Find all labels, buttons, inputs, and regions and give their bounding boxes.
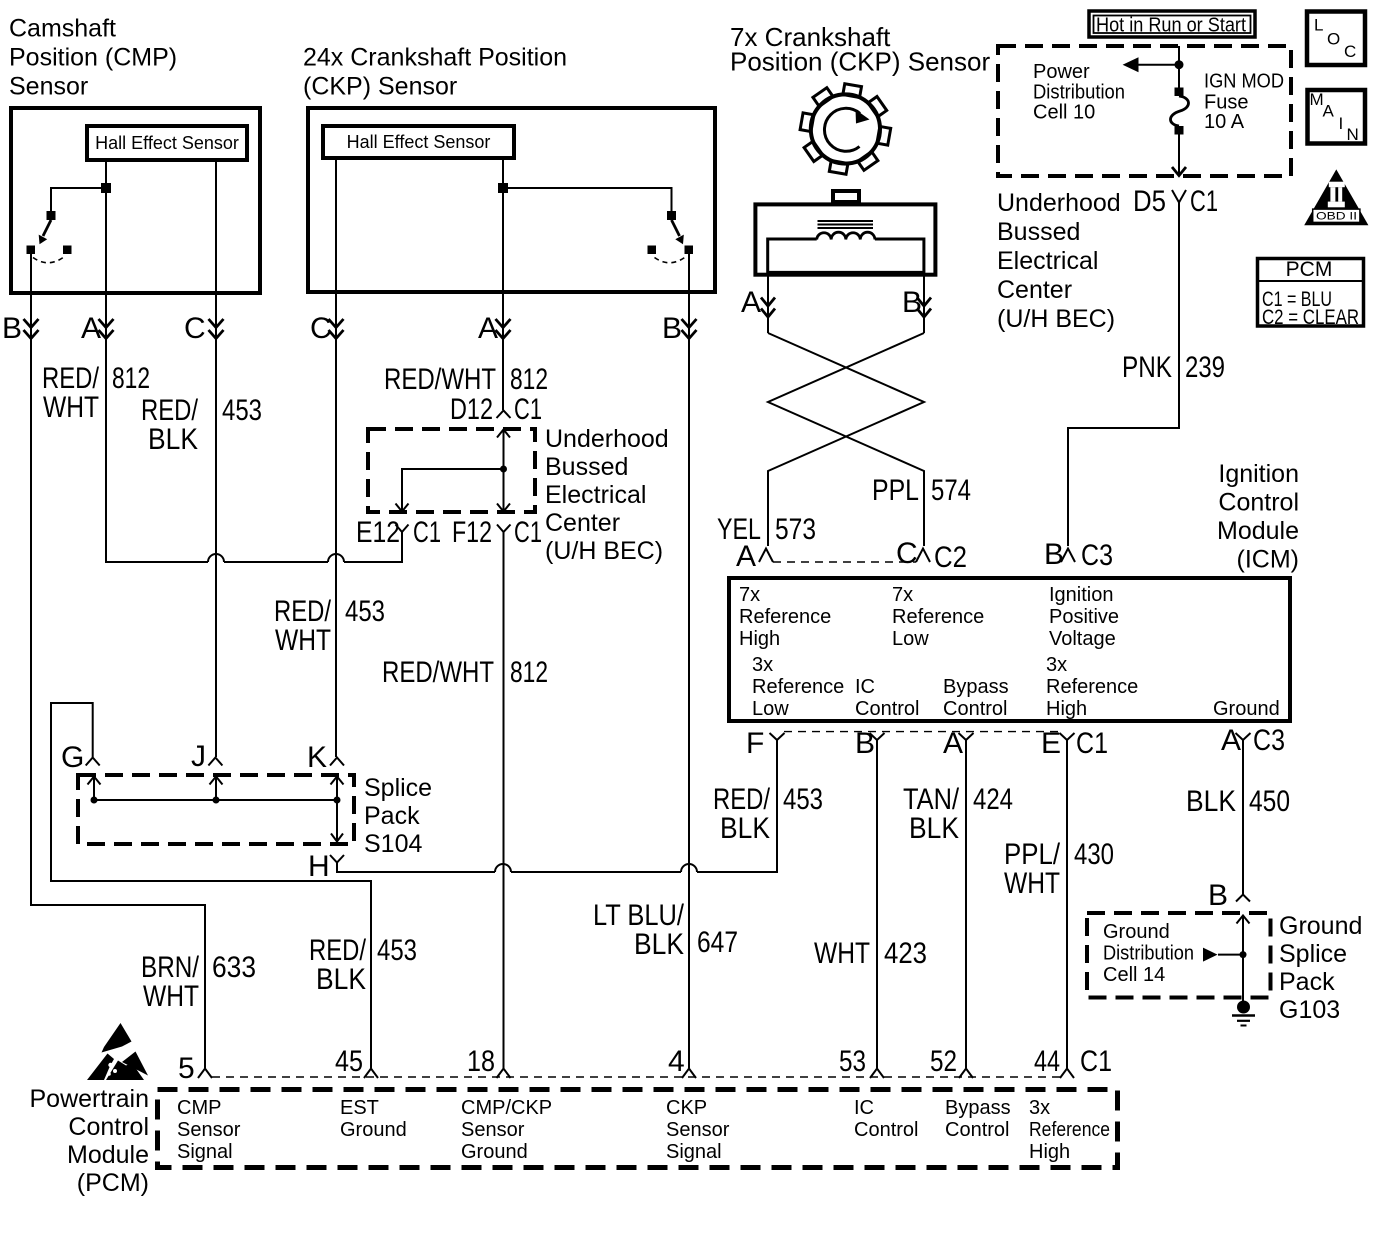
wire: fuse output down to U/H BEC edge: [1178, 135, 1180, 176]
svg-text:C1: C1: [514, 393, 542, 426]
svg-text:CMP/CKP: CMP/CKP: [461, 1097, 552, 1119]
svg-text:WHT: WHT: [43, 391, 99, 424]
connector pin 53 at PCM: [839, 1045, 884, 1078]
svg-text:Power: Power: [1033, 61, 1090, 83]
fuse IGN MOD 10A: [1171, 88, 1189, 135]
wire label RED/BLK 453 (PCM pin 45): [309, 934, 417, 996]
svg-text:BLK: BLK: [316, 963, 366, 996]
wire label PPL 574: [872, 474, 971, 507]
connector pin 45 at PCM: [335, 1045, 378, 1078]
svg-text:3x: 3x: [1029, 1097, 1050, 1119]
svg-text:BLK: BLK: [148, 423, 198, 456]
connector F at ICM bottom: [746, 727, 785, 760]
wire: branch from ground distribution: [1218, 954, 1243, 956]
label: Camshaft Position (CMP) Sensor title: [9, 15, 177, 101]
svg-text:Splice: Splice: [364, 774, 432, 802]
svg-text:52: 52: [930, 1045, 957, 1078]
wire: internal stem to F12: [503, 469, 505, 510]
junction dot J: [213, 797, 220, 804]
label: CKP Sensor Signal (PCM): [666, 1097, 730, 1163]
svg-text:D5: D5: [1133, 185, 1166, 218]
svg-text:(ICM): (ICM): [1237, 546, 1299, 574]
wire: feed from Hot in Run into fuse: [1178, 46, 1180, 88]
svg-text:Cell 10: Cell 10: [1033, 102, 1095, 124]
svg-text:424: 424: [973, 783, 1013, 816]
label: Power Distribution Cell 10: [1033, 61, 1125, 124]
connector J at splice pack: [191, 740, 222, 773]
svg-text:3x: 3x: [1046, 654, 1067, 676]
svg-text:7x: 7x: [892, 584, 913, 606]
svg-text:5: 5: [178, 1052, 195, 1085]
svg-text:WHT: WHT: [1004, 867, 1060, 900]
wire label TAN/BLK 424: [903, 783, 1013, 845]
svg-text:WHT: WHT: [275, 624, 331, 657]
label: Bypass Control (PCM): [945, 1097, 1011, 1141]
svg-text:C1: C1: [514, 516, 542, 549]
svg-text:C: C: [896, 537, 918, 570]
connector F12 C1: [452, 516, 542, 549]
svg-text:CKP: CKP: [666, 1097, 707, 1119]
wire label RED/WHT 812 (CMP pin A): [42, 362, 150, 424]
svg-text:Bypass: Bypass: [943, 676, 1009, 698]
PCM connector legend box: [1258, 258, 1364, 329]
label: Ignition Control Module (ICM): [1217, 460, 1299, 574]
svg-text:C3: C3: [1253, 724, 1285, 757]
svg-text:C1: C1: [1190, 185, 1218, 218]
svg-text:High: High: [1029, 1141, 1070, 1163]
label: Ground Distribution Cell 14: [1103, 921, 1194, 986]
arrow out of splice pack to H: [331, 800, 343, 842]
label: Ground Splice Pack G103: [1279, 912, 1362, 1024]
connector pin 5 at PCM: [178, 1052, 212, 1085]
connector arrows CMP pin A: [99, 319, 114, 339]
svg-text:A: A: [741, 286, 761, 319]
Hot in Run or Start box: [1089, 11, 1255, 37]
svg-text:Control: Control: [854, 1119, 918, 1141]
svg-text:I: I: [1339, 114, 1344, 133]
wire label RED/WHT 812 (F12 output): [382, 656, 548, 689]
svg-text:C: C: [310, 312, 332, 345]
connector pin 18 at PCM: [467, 1045, 511, 1078]
connector arrows 24x pin A: [496, 319, 511, 339]
svg-text:Ground: Ground: [1103, 921, 1170, 943]
svg-text:Position (CKP) Sensor: Position (CKP) Sensor: [730, 47, 990, 77]
svg-text:(PCM): (PCM): [77, 1169, 149, 1197]
svg-text:3x: 3x: [752, 654, 773, 676]
arrow out of U/H BEC at F12: [497, 504, 510, 512]
LOC reference box: [1307, 12, 1365, 66]
svg-text:574: 574: [931, 474, 971, 507]
svg-text:Ground: Ground: [340, 1119, 407, 1141]
svg-text:C2 = CLEAR: C2 = CLEAR: [1262, 306, 1359, 329]
connector D5 C1: [1133, 185, 1218, 218]
junction dot inside U/H BEC: [500, 466, 507, 473]
connector arrows CMP pin B: [24, 319, 39, 339]
switch inside 24x CKP sensor: [498, 183, 693, 263]
svg-text:812: 812: [510, 656, 548, 689]
svg-text:44: 44: [1034, 1045, 1060, 1078]
connector D12 C1 at U/H BEC: [450, 393, 542, 426]
reluctor wheel (gear) of 7x CKP sensor: [800, 84, 891, 175]
svg-text:Underhood: Underhood: [545, 425, 669, 453]
svg-text:CMP: CMP: [177, 1097, 221, 1119]
OBD II symbol: [1304, 169, 1368, 225]
svg-text:C: C: [1344, 42, 1356, 61]
svg-text:G103: G103: [1279, 996, 1340, 1024]
wire label PPL/WHT 430: [1004, 838, 1114, 900]
svg-text:Ground: Ground: [1279, 912, 1362, 940]
arrow into splice pack at J: [210, 777, 223, 801]
svg-text:PCM: PCM: [1286, 258, 1333, 281]
wire: ICM pin A to PCM pin 52: [965, 740, 967, 1068]
connector C C2 at ICM top: [896, 537, 967, 574]
svg-text:Hall Effect Sensor: Hall Effect Sensor: [95, 133, 239, 153]
MAIN reference box: [1308, 90, 1366, 144]
label: IGN MOD Fuse 10 A: [1204, 71, 1284, 134]
Power Distribution Cell 10 dashed box: [998, 46, 1291, 176]
svg-text:(U/H BEC): (U/H BEC): [545, 537, 663, 565]
wire label RED/WHT 453 (24x pin C): [274, 595, 385, 657]
connector E12 C1: [356, 516, 441, 562]
connector E C1 at ICM bottom: [1041, 727, 1108, 760]
ESD sensitive symbol: [87, 1023, 148, 1080]
arrow into splice pack at K: [331, 777, 344, 801]
svg-text:RED/WHT: RED/WHT: [382, 656, 494, 689]
hall effect sensor box (CMP): [87, 126, 247, 160]
junction dot G: [91, 797, 98, 804]
wire: CMP pin A down to E12 feed line: [106, 160, 402, 562]
svg-text:633: 633: [212, 951, 256, 984]
svg-text:C1: C1: [413, 516, 441, 549]
svg-text:812: 812: [112, 362, 150, 395]
svg-text:Sensor: Sensor: [666, 1119, 730, 1141]
wire: branch to power distribution (left arrow): [1137, 64, 1179, 66]
label: 7x Reference Low (ICM): [892, 584, 984, 650]
connector arrows 24x pin B: [682, 319, 697, 339]
svg-text:18: 18: [467, 1045, 495, 1078]
svg-text:Control: Control: [855, 698, 919, 720]
label: Underhood Bussed Electrical Center (U/H BEC) middle: [545, 425, 669, 565]
svg-text:O: O: [1327, 30, 1340, 49]
wire: twisted pair line from 7x A to ICM pin A: [768, 333, 924, 546]
24x CKP sensor outline box: [308, 108, 715, 292]
label: CMP/CKP Sensor Ground (PCM): [461, 1097, 552, 1163]
svg-text:Control: Control: [943, 698, 1007, 720]
svg-text:C1: C1: [1080, 1045, 1112, 1078]
svg-text:PPL: PPL: [872, 474, 919, 507]
svg-text:RED/WHT: RED/WHT: [384, 363, 496, 396]
svg-text:A: A: [736, 540, 756, 573]
svg-text:J: J: [191, 740, 206, 773]
connector A C3 ground at ICM bottom: [1221, 724, 1285, 757]
svg-text:812: 812: [510, 363, 548, 396]
svg-text:Reference: Reference: [739, 606, 831, 628]
svg-text:C1: C1: [1076, 727, 1108, 760]
svg-text:IC: IC: [855, 676, 875, 698]
svg-text:BLK: BLK: [634, 928, 684, 961]
wire label RED/WHT 812 (24x pin A): [384, 363, 548, 396]
arrow out of U/H BEC at E12: [396, 504, 409, 512]
svg-text:24x Crankshaft Position: 24x Crankshaft Position: [303, 44, 567, 72]
label: IC Control (PCM): [854, 1097, 918, 1141]
wire: down to ground G103: [1242, 955, 1244, 1001]
svg-text:F: F: [746, 727, 764, 760]
svg-text:(U/H BEC): (U/H BEC): [997, 305, 1115, 333]
svg-text:B: B: [902, 286, 922, 319]
wire: 7x pin A stub: [767, 272, 769, 333]
hall effect sensor box (24x CKP): [323, 126, 514, 158]
svg-text:E12: E12: [356, 516, 400, 549]
connector pin 44 C1 at PCM: [1034, 1045, 1112, 1078]
arrow at U/H BEC box edge: [1172, 167, 1186, 176]
svg-text:647: 647: [697, 926, 738, 959]
svg-text:A: A: [1323, 102, 1335, 121]
wire: H to ICM pin F (3x Reference Low): [337, 740, 777, 873]
svg-text:Position (CMP): Position (CMP): [9, 44, 177, 72]
svg-text:Hot in Run or Start: Hot in Run or Start: [1096, 15, 1246, 37]
wire label PNK 239: [1122, 351, 1225, 384]
svg-text:Cell 14: Cell 14: [1103, 964, 1165, 986]
connector pin 52 at PCM: [930, 1045, 973, 1078]
arrow into splice pack at G: [88, 777, 101, 801]
svg-text:Underhood: Underhood: [997, 189, 1121, 217]
svg-text:B: B: [1044, 538, 1064, 571]
wire: PNK 239 from D5 to ICM B/C3: [1068, 203, 1179, 547]
ground symbol G103: [1232, 1001, 1255, 1026]
wire: ICM pin E to PCM pin 44: [1066, 740, 1068, 1068]
svg-text:H: H: [308, 850, 330, 883]
wire: F12 output down to PCM pin 18: [503, 532, 505, 1068]
svg-text:High: High: [739, 628, 780, 650]
svg-text:BLK: BLK: [909, 812, 959, 845]
svg-text:Control: Control: [1218, 489, 1299, 517]
svg-text:Low: Low: [892, 628, 929, 650]
arrow into U/H BEC at D12: [497, 430, 510, 470]
connector A at ICM top: [736, 540, 773, 573]
junction dot G103: [1240, 951, 1247, 958]
svg-text:A: A: [81, 312, 101, 345]
svg-text:B: B: [2, 312, 22, 345]
svg-text:Electrical: Electrical: [545, 481, 646, 509]
wire label LT BLU/BLK 647 (PCM pin 4): [593, 899, 738, 961]
svg-text:Ignition: Ignition: [1218, 460, 1299, 488]
svg-text:C: C: [184, 312, 206, 345]
svg-text:Reference: Reference: [752, 676, 844, 698]
svg-text:High: High: [1046, 698, 1087, 720]
connector H at splice pack: [308, 850, 344, 883]
connector arrows 7x pin A: [761, 298, 775, 318]
svg-text:45: 45: [335, 1045, 363, 1078]
svg-text:Distribution: Distribution: [1033, 82, 1125, 104]
svg-text:D12: D12: [450, 393, 493, 426]
connector arrows 7x pin B: [917, 298, 931, 318]
svg-text:PNK: PNK: [1122, 351, 1172, 384]
connector K at splice pack: [307, 741, 344, 774]
wire label RED/BLK 453 (ICM pin F): [713, 783, 823, 845]
svg-text:A: A: [1221, 724, 1241, 757]
dashed connector line ICM top: [773, 561, 916, 563]
svg-text:WHT: WHT: [814, 937, 870, 970]
label: 7x Reference High (ICM): [739, 584, 831, 650]
label: Ignition Positive Voltage (ICM): [1049, 584, 1119, 650]
CMP sensor outline box: [11, 108, 260, 293]
svg-text:Sensor: Sensor: [461, 1119, 525, 1141]
wire jump over F12 wire: [495, 864, 511, 872]
svg-text:G: G: [61, 741, 84, 774]
svg-text:A: A: [478, 312, 498, 345]
label: Splice Pack S104: [364, 774, 432, 858]
wire: G loop from splice pack to PCM pin 45: [51, 703, 371, 1068]
svg-text:Electrical: Electrical: [997, 247, 1098, 275]
wire: 24x pin B down to PCM pin 4: [688, 254, 690, 1068]
svg-text:Reference: Reference: [892, 606, 984, 628]
wire label WHT 423: [814, 937, 927, 970]
connector arrows CMP pin C: [209, 319, 224, 339]
label: IC Control (ICM): [855, 676, 919, 720]
svg-text:Distribution: Distribution: [1103, 943, 1194, 965]
Ground Splice Pack G103 dashed box: [1087, 913, 1271, 998]
svg-text:Module: Module: [1217, 517, 1299, 545]
svg-text:N: N: [1347, 125, 1359, 144]
svg-text:Center: Center: [545, 509, 620, 537]
wire label BRN/WHT 633 (PCM pin 5): [141, 951, 256, 1013]
svg-text:Control: Control: [68, 1113, 149, 1141]
wire label RED/BLK 453 (CMP pin C): [141, 394, 262, 456]
U/H BEC dashed box (D12/E12/F12): [368, 429, 535, 512]
arrow into ground splice pack: [1237, 916, 1250, 955]
wire: 7x pin B stub: [923, 272, 925, 333]
svg-text:573: 573: [775, 513, 816, 546]
wire jump over 24x C wire: [328, 554, 344, 562]
label: 7x Crankshaft Position (CKP) Sensor title: [730, 22, 990, 77]
svg-text:Reference: Reference: [1029, 1119, 1110, 1141]
svg-text:Signal: Signal: [177, 1141, 233, 1163]
switch inside CMP sensor: [27, 183, 112, 263]
svg-text:OBD II: OBD II: [1316, 211, 1357, 223]
connector pin 4 at PCM: [668, 1045, 696, 1078]
svg-text:453: 453: [345, 595, 385, 628]
label: Powertrain Control Module (PCM): [30, 1085, 150, 1197]
wire: CMP pin B down, right, down to PCM pin 5: [31, 254, 205, 1068]
connector A at ICM bottom: [943, 727, 974, 760]
svg-text:Pack: Pack: [1279, 968, 1335, 996]
svg-text:F12: F12: [452, 516, 492, 549]
label: 24x Crankshaft Position (CKP) Sensor title: [303, 44, 567, 101]
junction dot at power feed: [1175, 60, 1184, 69]
svg-text:10 A: 10 A: [1204, 111, 1245, 133]
svg-text:453: 453: [222, 394, 262, 427]
svg-text:Reference: Reference: [1046, 676, 1138, 698]
7x CKP sensor body box with pickup coil: [755, 191, 935, 275]
label: 3x Reference High (PCM): [1029, 1097, 1110, 1163]
svg-text:EST: EST: [340, 1097, 379, 1119]
wire: internal branch to E12: [402, 469, 504, 510]
svg-text:Bypass: Bypass: [945, 1097, 1011, 1119]
svg-text:Powertrain: Powertrain: [30, 1085, 150, 1113]
svg-text:239: 239: [1185, 351, 1225, 384]
svg-text:K: K: [307, 741, 327, 774]
svg-text:450: 450: [1249, 785, 1290, 818]
svg-text:Low: Low: [752, 698, 789, 720]
svg-text:Bussed: Bussed: [545, 453, 628, 481]
connector B at ICM bottom: [855, 727, 885, 760]
connector arrows 24x pin C: [329, 319, 344, 339]
wire: 24x pin A down to D12: [502, 158, 504, 410]
svg-text:Sensor: Sensor: [9, 73, 88, 101]
svg-text:C2: C2: [934, 541, 967, 574]
label: CMP Sensor Signal (PCM): [177, 1097, 241, 1163]
dashed connector line PCM top: [212, 1076, 1060, 1078]
svg-text:Ground: Ground: [1213, 698, 1280, 720]
svg-text:423: 423: [884, 937, 927, 970]
svg-text:Hall Effect Sensor: Hall Effect Sensor: [347, 132, 491, 152]
wire label BLK 450: [1186, 785, 1290, 818]
svg-text:Center: Center: [997, 276, 1072, 304]
connector G at splice pack: [61, 741, 100, 774]
svg-text:Voltage: Voltage: [1049, 628, 1116, 650]
svg-text:WHT: WHT: [143, 980, 199, 1013]
Ignition Control Module box: [729, 578, 1290, 721]
svg-text:Positive: Positive: [1049, 606, 1119, 628]
svg-text:S104: S104: [364, 830, 422, 858]
wire: twisted pair line from 7x B to ICM pin C: [768, 333, 924, 546]
svg-text:Ignition: Ignition: [1049, 584, 1114, 606]
connector B C3 at ICM top: [1044, 538, 1113, 572]
svg-text:53: 53: [839, 1045, 866, 1078]
svg-text:4: 4: [668, 1045, 685, 1078]
label: Underhood Bussed Electrical Center (U/H BEC) right: [997, 189, 1121, 333]
svg-text:Ground: Ground: [461, 1141, 528, 1163]
svg-text:Splice: Splice: [1279, 940, 1347, 968]
svg-text:Sensor: Sensor: [177, 1119, 241, 1141]
svg-text:Bussed: Bussed: [997, 218, 1080, 246]
svg-text:B: B: [1208, 879, 1228, 912]
splice bus bar S104: [94, 799, 337, 801]
label: EST Ground (PCM): [340, 1097, 407, 1141]
svg-text:IC: IC: [854, 1097, 874, 1119]
label: 3x Reference High (ICM): [1046, 654, 1138, 720]
svg-text:BLK: BLK: [1186, 785, 1236, 818]
svg-text:C3: C3: [1081, 539, 1113, 572]
wire: CMP pin C down to splice pack J: [215, 160, 217, 757]
svg-text:453: 453: [377, 934, 417, 967]
dashed connector line ICM bottom: [784, 731, 1060, 733]
junction dot K: [334, 797, 341, 804]
svg-text:BLK: BLK: [720, 812, 770, 845]
wire: ICM pin B to PCM pin 53: [876, 740, 878, 1068]
Splice Pack S104 dashed box: [78, 775, 354, 844]
label: 3x Reference Low (ICM): [752, 654, 844, 720]
svg-text:453: 453: [783, 783, 823, 816]
svg-text:Signal: Signal: [666, 1141, 722, 1163]
wire jump over 24x B wire: [681, 864, 697, 872]
wire label YEL 573: [717, 513, 816, 546]
svg-text:Control: Control: [945, 1119, 1009, 1141]
connector B at ground splice pack: [1208, 879, 1250, 912]
svg-text:Camshaft: Camshaft: [9, 15, 116, 43]
svg-text:IGN MOD: IGN MOD: [1204, 71, 1284, 93]
svg-text:B: B: [662, 312, 682, 345]
svg-text:Module: Module: [67, 1141, 149, 1169]
wire: 24x pin C down to splice pack K: [335, 158, 337, 757]
wire: ICM ground pin A to G103: [1242, 740, 1244, 894]
svg-text:430: 430: [1074, 838, 1114, 871]
svg-text:L: L: [1314, 16, 1323, 35]
svg-text:Pack: Pack: [364, 802, 420, 830]
PCM dashed box: [158, 1090, 1118, 1168]
wire jump over CMP C wire: [208, 554, 224, 562]
svg-text:7x: 7x: [739, 584, 760, 606]
